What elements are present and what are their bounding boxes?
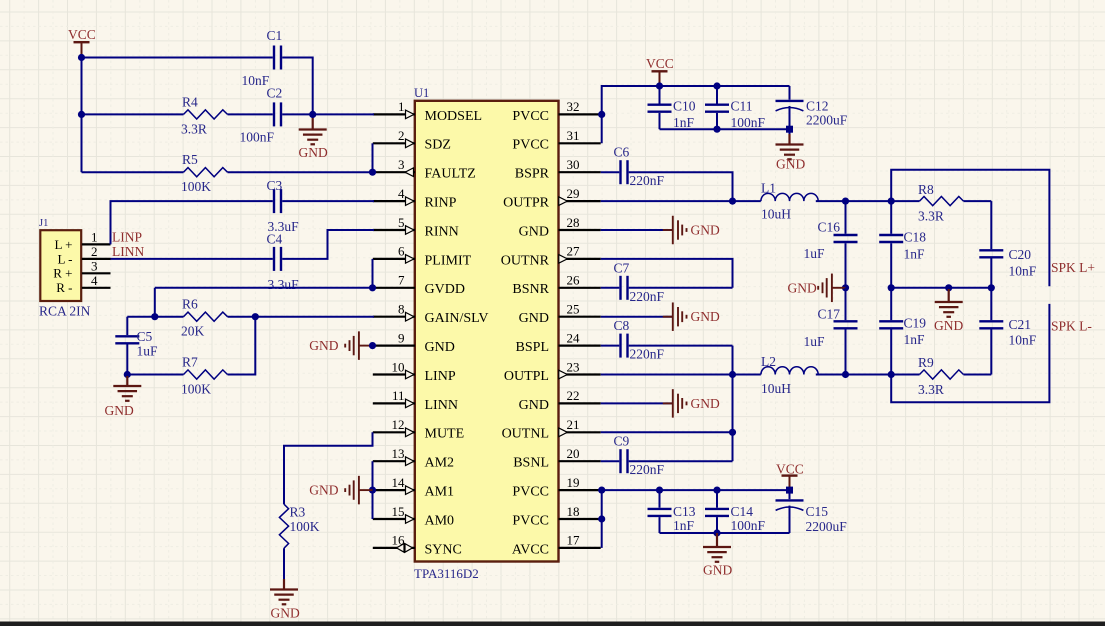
capacitor C18 — [890, 201, 892, 234]
wire mid ground row — [891, 287, 991, 289]
pin 21 OUTNL — [559, 431, 601, 433]
svg-text:GND: GND — [703, 563, 732, 578]
resistor R5 — [184, 168, 228, 177]
svg-text:10: 10 — [392, 359, 405, 374]
svg-text:J1: J1 — [39, 218, 48, 229]
svg-text:VCC: VCC — [646, 56, 674, 71]
wire MUTE to R3 — [284, 432, 373, 504]
svg-text:1nF: 1nF — [673, 115, 695, 130]
svg-text:LINN: LINN — [112, 244, 144, 259]
svg-text:24: 24 — [567, 330, 581, 345]
pin 19 PVCC — [559, 489, 601, 491]
wire PVCC pins 19-18-17 — [601, 490, 603, 548]
junction C12 bottom node — [786, 126, 793, 133]
capacitor C12 polarized — [789, 86, 791, 100]
junction AM1 node — [369, 487, 376, 494]
svg-text:14: 14 — [392, 475, 406, 490]
pin 29 OUTPR — [559, 200, 601, 202]
wire R5 row FAULTZ — [82, 171, 184, 173]
svg-text:C10: C10 — [673, 99, 696, 114]
junction R6-GAIN — [252, 313, 259, 320]
pin 5 RINN — [373, 229, 415, 231]
svg-text:19: 19 — [567, 475, 580, 490]
svg-text:GND: GND — [309, 338, 338, 353]
svg-text:R +: R + — [53, 266, 72, 281]
junction PLIMIT-GVDD — [369, 284, 376, 291]
svg-text:GND: GND — [788, 281, 817, 296]
junction OUTNL node — [729, 429, 736, 436]
wire GVDD row — [155, 287, 374, 289]
wire PLIMIT drop to GVDD — [372, 259, 374, 288]
resistor R7 — [184, 370, 228, 379]
svg-text:5: 5 — [398, 215, 405, 230]
junction C13 top — [656, 487, 663, 494]
svg-text:GND: GND — [105, 403, 134, 418]
junction pin32 — [598, 111, 605, 118]
svg-text:10uH: 10uH — [761, 381, 791, 396]
wire GND pin25 — [601, 316, 673, 318]
wire OUTNR row — [601, 259, 733, 288]
wire GND pin22 — [601, 402, 673, 404]
wire GND pin28 — [601, 229, 673, 231]
svg-text:32: 32 — [567, 99, 580, 114]
pin 7 GVDD — [373, 287, 415, 289]
junction C6-OUTPR — [729, 198, 736, 205]
svg-text:SPK L+: SPK L+ — [1051, 260, 1095, 275]
pin 26 BSNR — [559, 287, 601, 289]
pin 11 LINN — [373, 402, 415, 404]
svg-text:3: 3 — [398, 157, 405, 172]
svg-text:100nF: 100nF — [240, 130, 275, 145]
svg-text:2200uF: 2200uF — [806, 519, 848, 534]
svg-text:L +: L + — [54, 237, 72, 252]
pin 16 SYNC — [373, 547, 415, 549]
wire OUTPL row — [601, 374, 761, 376]
ground GND at pin 28 — [663, 229, 673, 231]
ground GND at pin 9 — [359, 345, 373, 347]
wire BSNR to C7 — [601, 287, 620, 289]
pin 4 RINP — [373, 200, 415, 202]
svg-text:L1: L1 — [761, 181, 776, 196]
svg-text:RCA 2IN: RCA 2IN — [39, 304, 91, 319]
wire bottom rail C10-C12 — [660, 128, 790, 130]
wire LINN row — [111, 258, 273, 260]
ground GND below R3 — [283, 579, 285, 590]
capacitor C16 — [845, 201, 847, 234]
svg-text:C17: C17 — [818, 307, 841, 322]
svg-text:22: 22 — [567, 388, 580, 403]
pin 32 PVCC — [559, 113, 601, 115]
svg-text:BSNL: BSNL — [513, 456, 549, 471]
pin 6 PLIMIT — [373, 258, 415, 260]
svg-text:20: 20 — [567, 446, 580, 461]
junction VCC-C1 — [78, 54, 85, 61]
svg-text:SDZ: SDZ — [425, 138, 451, 153]
junction C14 bottom — [713, 529, 720, 536]
connector J1 RCA 2IN body — [40, 230, 81, 301]
svg-text:4: 4 — [91, 273, 98, 288]
wire BSPR to C6 — [601, 171, 620, 173]
J1 pin 1 — [82, 243, 111, 245]
svg-text:100nF: 100nF — [731, 518, 766, 533]
capacitor C13 — [659, 490, 661, 508]
wire AM2-AM1-AM0 bus — [372, 461, 374, 519]
wire VCC vertical — [81, 58, 83, 173]
svg-text:PVCC: PVCC — [512, 109, 549, 124]
ground GND at pin 25 — [663, 316, 673, 318]
svg-text:U1: U1 — [414, 86, 429, 100]
ground GND below C14 — [716, 533, 718, 547]
svg-text:BSPL: BSPL — [516, 340, 549, 355]
svg-text:RINN: RINN — [425, 224, 459, 239]
resistor R6 — [184, 312, 228, 321]
svg-text:1uF: 1uF — [804, 246, 826, 261]
wire OUTPR row — [601, 200, 761, 202]
svg-text:SPK L-: SPK L- — [1051, 319, 1092, 334]
svg-text:1nF: 1nF — [904, 247, 926, 262]
svg-text:GND: GND — [519, 224, 549, 239]
svg-text:R3: R3 — [290, 505, 306, 520]
ground GND below C5 — [126, 376, 128, 386]
svg-text:LINP: LINP — [425, 369, 456, 384]
svg-text:C14: C14 — [731, 504, 754, 519]
wire VCC to C1 top rail — [82, 57, 273, 59]
svg-text:GND: GND — [691, 223, 720, 238]
wire GAIN/SLV row — [127, 316, 183, 318]
svg-text:1: 1 — [398, 99, 405, 114]
pin 9 GND — [373, 345, 415, 347]
pin 17 AVCC — [559, 547, 601, 549]
capacitor C5 — [126, 317, 128, 335]
pin 24 BSPL — [559, 345, 601, 347]
pin 22 GND — [559, 402, 601, 404]
svg-text:C21: C21 — [1009, 317, 1032, 332]
junction pin18 — [598, 515, 605, 522]
svg-text:GND: GND — [299, 145, 328, 160]
junction C20-C21 — [988, 284, 995, 291]
J1 pin 2 — [82, 258, 111, 260]
svg-text:L -: L - — [57, 251, 72, 266]
pin 31 PVCC — [559, 142, 601, 144]
svg-text:C1: C1 — [267, 28, 283, 43]
capacitor C6 — [619, 160, 621, 184]
svg-text:C11: C11 — [731, 99, 753, 114]
wire C7 to OUTNR corner — [629, 287, 733, 289]
capacitor C21 — [990, 288, 992, 320]
junction OUTPR-filter — [888, 198, 895, 205]
junction C16-C17-GND — [842, 284, 849, 291]
svg-text:MODSEL: MODSEL — [425, 109, 483, 124]
svg-text:R4: R4 — [182, 95, 198, 110]
svg-text:17: 17 — [567, 533, 581, 548]
capacitor C15 polarized — [789, 490, 791, 499]
svg-text:AM1: AM1 — [425, 485, 455, 500]
junction pin 9 GND — [369, 342, 376, 349]
svg-text:C18: C18 — [904, 230, 927, 245]
svg-text:C19: C19 — [904, 316, 927, 331]
pin 23 OUTPL — [559, 373, 601, 375]
svg-text:10nF: 10nF — [242, 73, 270, 88]
resistor R9 — [920, 370, 964, 379]
J1 pin 3 — [82, 272, 111, 274]
junction L2-filter — [888, 371, 895, 378]
svg-text:OUTNR: OUTNR — [501, 253, 550, 268]
svg-text:C12: C12 — [806, 99, 829, 114]
svg-text:29: 29 — [567, 186, 580, 201]
ground GND at AM pins — [359, 489, 373, 491]
capacitor C20 — [979, 249, 1003, 251]
svg-text:C5: C5 — [137, 329, 153, 344]
svg-text:GVDD: GVDD — [425, 282, 465, 297]
ground GND below C12 — [789, 129, 791, 134]
wire R4 row MODSEL — [82, 113, 184, 115]
pin 10 LINP — [373, 373, 415, 375]
svg-text:7: 7 — [398, 273, 405, 288]
power VCC top-right — [652, 70, 668, 72]
pin 20 BSNL — [559, 460, 601, 462]
junction C5-R7-GND — [124, 371, 131, 378]
svg-text:R9: R9 — [918, 355, 934, 370]
wire R7 row — [127, 374, 183, 376]
svg-text:C3: C3 — [267, 178, 283, 193]
svg-text:11: 11 — [392, 388, 405, 403]
junction C1-C2-GND node — [309, 111, 316, 118]
capacitor C1 — [273, 46, 275, 70]
svg-text:8: 8 — [398, 302, 405, 317]
svg-text:C9: C9 — [614, 434, 630, 449]
svg-text:PVCC: PVCC — [512, 485, 549, 500]
svg-text:10nF: 10nF — [1009, 333, 1037, 348]
wire PVCC row to VCC — [602, 489, 790, 491]
J1 pin 4 — [82, 287, 111, 289]
resistor R8 — [920, 197, 964, 206]
pin 3 FAULTZ — [373, 171, 415, 173]
svg-text:15: 15 — [392, 504, 405, 519]
svg-text:3.3R: 3.3R — [918, 382, 944, 397]
capacitor C10 — [659, 86, 661, 104]
svg-text:30: 30 — [567, 157, 580, 172]
svg-text:4: 4 — [398, 186, 405, 201]
power VCC bottom — [782, 474, 798, 476]
capacitor C2 — [273, 102, 275, 126]
svg-text:13: 13 — [392, 446, 405, 461]
capacitor C14 — [716, 490, 718, 508]
svg-text:C8: C8 — [614, 318, 630, 333]
ground GND mid filter — [948, 289, 950, 302]
capacitor C3 — [273, 189, 275, 213]
svg-text:2: 2 — [91, 244, 98, 259]
wire C6 to OUTPR corner — [629, 172, 733, 201]
junction GVDD-R6 — [151, 313, 158, 320]
svg-text:1uF: 1uF — [804, 334, 826, 349]
junction C11 top — [713, 82, 720, 89]
junction C18 bottom — [888, 284, 895, 291]
svg-text:BSNR: BSNR — [512, 282, 549, 297]
svg-text:25: 25 — [567, 302, 580, 317]
ground GND between C16 C17 — [832, 287, 846, 289]
junction L2-C17 — [842, 371, 849, 378]
svg-text:PVCC: PVCC — [512, 138, 549, 153]
svg-text:MUTE: MUTE — [425, 427, 465, 442]
svg-text:GND: GND — [519, 311, 549, 326]
svg-text:OUTNL: OUTNL — [502, 427, 549, 442]
wire C1 to GND corner — [282, 58, 313, 115]
svg-text:SYNC: SYNC — [425, 542, 462, 557]
pin 28 GND — [559, 229, 601, 231]
svg-text:C7: C7 — [614, 260, 630, 275]
junction OUTPL node — [729, 371, 736, 378]
svg-text:TPA3116D2: TPA3116D2 — [414, 566, 479, 581]
capacitor C11 — [716, 86, 718, 104]
wire bottom rail C13-C15 — [660, 532, 790, 534]
pin 14 AM1 — [373, 489, 415, 491]
svg-text:GND: GND — [691, 309, 720, 324]
svg-text:27: 27 — [567, 244, 581, 259]
svg-text:AVCC: AVCC — [512, 542, 549, 557]
svg-text:100nF: 100nF — [731, 115, 766, 130]
svg-text:10nF: 10nF — [1009, 264, 1037, 279]
svg-text:R8: R8 — [918, 182, 934, 197]
op-amp U1 TPA3116D2 body — [415, 101, 559, 562]
svg-text:100K: 100K — [290, 519, 320, 534]
junction C11 bottom — [713, 126, 720, 133]
svg-text:12: 12 — [392, 417, 405, 432]
svg-text:1nF: 1nF — [673, 518, 695, 533]
svg-text:L2: L2 — [761, 354, 776, 369]
wire C8 vertical to C9 — [629, 345, 733, 347]
resistor R4 — [184, 110, 228, 119]
svg-text:C4: C4 — [267, 232, 283, 247]
capacitor C8 — [619, 334, 621, 358]
svg-text:3.3uF: 3.3uF — [268, 277, 300, 292]
svg-text:R5: R5 — [182, 152, 198, 167]
wire BSPL to C8 — [601, 345, 620, 347]
svg-text:OUTPR: OUTPR — [503, 196, 550, 211]
svg-text:9: 9 — [398, 330, 405, 345]
svg-text:PVCC: PVCC — [512, 513, 549, 528]
svg-text:100K: 100K — [181, 179, 211, 194]
capacitor C17 — [845, 288, 847, 320]
svg-text:R -: R - — [56, 280, 72, 295]
svg-text:RINP: RINP — [425, 196, 457, 211]
wire C4 to RINN step — [282, 230, 374, 259]
svg-text:23: 23 — [567, 359, 580, 374]
pin 15 AM0 — [373, 518, 415, 520]
pin 13 AM2 — [373, 460, 415, 462]
wire SDZ drop to FAULTZ — [372, 143, 374, 172]
svg-text:220nF: 220nF — [630, 347, 665, 362]
wire BSNL to C9 — [601, 460, 620, 462]
svg-text:100K: 100K — [181, 382, 211, 397]
svg-text:18: 18 — [567, 504, 580, 519]
svg-text:GND: GND — [776, 157, 805, 172]
svg-text:BSPR: BSPR — [515, 167, 550, 182]
svg-text:C15: C15 — [806, 504, 829, 519]
svg-text:GND: GND — [309, 483, 338, 498]
svg-text:C16: C16 — [818, 220, 841, 235]
svg-text:VCC: VCC — [776, 461, 804, 476]
capacitor C4 — [273, 247, 275, 271]
svg-text:3.3R: 3.3R — [918, 209, 944, 224]
wire GVDD corner down — [154, 288, 156, 317]
inductor L2 — [761, 367, 818, 375]
svg-text:28: 28 — [567, 215, 580, 230]
wire R8 to C20 — [990, 201, 992, 249]
junction mid gnd stub — [945, 284, 952, 291]
svg-text:C6: C6 — [614, 145, 630, 160]
svg-text:OUTPL: OUTPL — [504, 369, 549, 384]
svg-text:3: 3 — [91, 259, 98, 274]
inductor L1 — [761, 193, 818, 201]
svg-text:10uH: 10uH — [761, 207, 791, 222]
capacitor C19 — [890, 288, 892, 320]
pin 30 BSPR — [559, 171, 601, 173]
resistor R3 — [279, 504, 288, 548]
wire OUTNL row — [601, 431, 733, 433]
capacitor C9 — [619, 449, 621, 473]
wire PVCC pins 32-31 to rail — [602, 86, 790, 143]
svg-text:AM0: AM0 — [425, 513, 455, 528]
svg-text:LINN: LINN — [425, 398, 458, 413]
svg-text:FAULTZ: FAULTZ — [425, 167, 476, 182]
pin 27 OUTNR — [559, 258, 601, 260]
capacitor C7 — [619, 276, 621, 300]
svg-text:31: 31 — [567, 128, 580, 143]
svg-text:220nF: 220nF — [630, 173, 665, 188]
svg-text:C2: C2 — [267, 86, 283, 101]
pin 1 MODSEL — [373, 113, 415, 115]
pin 12 MUTE — [373, 431, 415, 433]
svg-text:220nF: 220nF — [630, 462, 665, 477]
svg-text:C20: C20 — [1009, 247, 1032, 262]
svg-text:C13: C13 — [673, 504, 696, 519]
junction C14 top — [713, 487, 720, 494]
svg-text:GND: GND — [519, 398, 549, 413]
junction SDZ-FAULTZ — [369, 169, 376, 176]
svg-text:3.3R: 3.3R — [181, 122, 207, 137]
svg-text:VCC: VCC — [68, 27, 96, 42]
svg-text:1nF: 1nF — [904, 332, 926, 347]
svg-text:R7: R7 — [182, 355, 198, 370]
svg-text:26: 26 — [567, 273, 581, 288]
svg-text:LINP: LINP — [112, 230, 142, 245]
junction L1-C16 — [842, 198, 849, 205]
svg-text:1uF: 1uF — [137, 344, 159, 359]
svg-text:AM2: AM2 — [425, 456, 455, 471]
svg-text:6: 6 — [398, 244, 405, 259]
svg-text:R6: R6 — [182, 297, 198, 312]
svg-text:GND: GND — [691, 396, 720, 411]
wire C3 to RINP — [282, 200, 374, 202]
pin 2 SDZ — [373, 142, 415, 144]
svg-text:GND: GND — [425, 340, 455, 355]
wire R3 to ground — [283, 548, 285, 579]
wire C9 to OUTNL corner — [629, 460, 733, 462]
svg-text:20K: 20K — [181, 324, 205, 339]
svg-text:220nF: 220nF — [630, 289, 665, 304]
wire LINP riser — [111, 201, 273, 244]
svg-text:GAIN/SLV: GAIN/SLV — [425, 311, 489, 326]
junction VCC2-rail — [656, 82, 663, 89]
svg-text:PLIMIT: PLIMIT — [425, 253, 472, 268]
pin 18 PVCC — [559, 518, 601, 520]
wire SPK L- loop — [891, 304, 1049, 402]
power VCC top-left — [74, 41, 90, 43]
ground GND at pin 22 — [663, 402, 673, 404]
wire SPK L+ loop — [891, 170, 1049, 287]
pin 25 GND — [559, 316, 601, 318]
svg-text:GND: GND — [934, 318, 963, 333]
